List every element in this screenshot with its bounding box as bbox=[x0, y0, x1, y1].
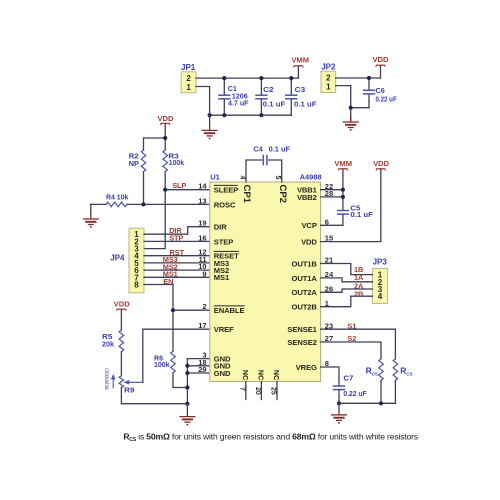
pin VDD 15 bbox=[301, 234, 333, 247]
capacitor C3 bbox=[285, 78, 317, 115]
capacitor C2 bbox=[255, 78, 286, 115]
pin VCP 6 bbox=[301, 217, 329, 230]
wire VREG to C7 bbox=[321, 367, 339, 386]
pin CP2 5 bbox=[274, 176, 288, 203]
power VMM mid bbox=[334, 159, 352, 211]
net label S2 bbox=[347, 334, 356, 343]
svg-text:14: 14 bbox=[198, 182, 207, 191]
svg-text:100k: 100k bbox=[169, 158, 185, 167]
svg-text:9: 9 bbox=[202, 269, 206, 278]
connector JP1 bbox=[181, 63, 196, 93]
wire JP1 pin1 to GND rail bbox=[196, 87, 210, 116]
wire GND bus vertical bbox=[186, 359, 188, 404]
svg-text:2B: 2B bbox=[354, 289, 363, 298]
svg-text:2: 2 bbox=[202, 302, 206, 311]
net label 2A bbox=[354, 282, 364, 291]
svg-text:OUT2B: OUT2B bbox=[292, 303, 318, 312]
net label EN bbox=[163, 277, 173, 286]
wire GND pin3 bbox=[187, 358, 209, 360]
pin NC 25 bbox=[270, 370, 282, 400]
junction dots GND bus bbox=[185, 364, 189, 406]
pin GND 18 bbox=[198, 358, 231, 371]
wire VBB1 bbox=[321, 189, 343, 191]
svg-text:25: 25 bbox=[270, 387, 277, 395]
net label MS2 bbox=[163, 262, 178, 271]
pin CP1 4 bbox=[238, 176, 252, 204]
svg-text:NP: NP bbox=[129, 159, 139, 168]
svg-text:VDD: VDD bbox=[373, 159, 390, 168]
svg-text:MS1: MS1 bbox=[214, 273, 230, 282]
resistor RCS right bbox=[393, 359, 412, 404]
pin OUT1B 21 bbox=[292, 256, 334, 269]
capacitor C4 bbox=[246, 144, 291, 182]
wire STP JP4 pin2 to STEP pin bbox=[144, 240, 210, 242]
net label RST bbox=[170, 248, 185, 257]
svg-text:4.7 uF: 4.7 uF bbox=[228, 99, 249, 108]
connector JP2 bbox=[321, 62, 336, 92]
svg-text:VREF: VREF bbox=[214, 325, 234, 334]
svg-text:VDD: VDD bbox=[372, 55, 389, 64]
wire MS1 bbox=[144, 276, 210, 278]
svg-text:NC: NC bbox=[257, 370, 266, 380]
svg-text:19: 19 bbox=[198, 219, 206, 228]
svg-text:STEP: STEP bbox=[214, 237, 233, 246]
svg-text:VBB2: VBB2 bbox=[297, 193, 317, 202]
wire sense ground rail bbox=[339, 402, 395, 404]
power VDD above R5 bbox=[114, 299, 131, 330]
capacitor C5 bbox=[321, 203, 374, 225]
svg-text:GND: GND bbox=[214, 369, 231, 378]
svg-text:0.1 uF: 0.1 uF bbox=[350, 210, 373, 219]
svg-text:VDD: VDD bbox=[114, 299, 131, 308]
pin SENSE2 27 bbox=[287, 334, 333, 347]
svg-text:U1: U1 bbox=[210, 172, 220, 181]
svg-text:SENSE1: SENSE1 bbox=[287, 325, 317, 334]
net label 1B bbox=[354, 265, 363, 274]
svg-text:29: 29 bbox=[198, 365, 206, 374]
wire JP2 pin1 to ground bbox=[336, 86, 351, 121]
power VDD mid bbox=[321, 159, 390, 242]
pin OUT2A 26 bbox=[292, 284, 334, 297]
wire C6 bottom to JP2 pin1 net bbox=[351, 107, 369, 109]
svg-text:JP1: JP1 bbox=[181, 63, 196, 72]
svg-text:RCS is 50mΩ for units with gre: RCS is 50mΩ for units with green resisto… bbox=[123, 431, 418, 443]
svg-text:JP4: JP4 bbox=[110, 254, 125, 263]
svg-text:VCP: VCP bbox=[301, 221, 316, 230]
svg-text:0.1 uF: 0.1 uF bbox=[263, 99, 286, 108]
svg-text:OUT1A: OUT1A bbox=[292, 274, 318, 283]
junction dots sense rail bbox=[337, 401, 383, 405]
wire MS2 bbox=[144, 269, 210, 271]
pin OUT2B 1 bbox=[292, 299, 329, 312]
connector JP4 bbox=[110, 228, 144, 293]
potentiometer R9 bbox=[119, 376, 143, 395]
svg-text:ENABLE: ENABLE bbox=[214, 306, 245, 315]
ground left of R4 bbox=[83, 204, 99, 228]
svg-text:4: 4 bbox=[378, 292, 383, 301]
svg-text:VDD: VDD bbox=[157, 114, 174, 123]
wire OUT1B to JP3 pin1 bbox=[321, 264, 373, 275]
svg-text:NC: NC bbox=[241, 370, 250, 380]
svg-text:CP1: CP1 bbox=[241, 185, 252, 204]
svg-text:20k: 20k bbox=[102, 340, 115, 349]
pin MS1 9 bbox=[202, 269, 230, 282]
note RCS values bbox=[123, 431, 418, 443]
power VMM top bbox=[291, 56, 309, 79]
wire OUT2A to JP3 pin3 bbox=[321, 289, 373, 292]
resistor R2 bbox=[129, 150, 146, 204]
svg-text:VREG: VREG bbox=[296, 363, 317, 372]
resistor R5 bbox=[102, 330, 124, 376]
net label S1 bbox=[347, 322, 356, 331]
pin MS3 11 bbox=[199, 255, 229, 268]
svg-text:SENSE2: SENSE2 bbox=[287, 338, 316, 347]
net label DIR bbox=[169, 226, 182, 235]
pin NC 20 bbox=[254, 370, 266, 400]
svg-text:OUT1B: OUT1B bbox=[292, 259, 318, 268]
wire SENSE2 S2 bbox=[321, 342, 381, 359]
svg-text:JP3: JP3 bbox=[373, 258, 388, 267]
svg-text:CS: CS bbox=[406, 372, 412, 377]
svg-text:0.22 uF: 0.22 uF bbox=[343, 389, 367, 398]
pin DIR 19 bbox=[198, 219, 227, 232]
wire VMM top rail bbox=[196, 77, 298, 79]
wire VBB2 bbox=[321, 196, 343, 198]
op-amp U1 A4988 IC body bbox=[210, 172, 322, 381]
wire EN JP4 pin8 down to ENABLE bbox=[144, 285, 173, 352]
resistor R3 bbox=[163, 138, 185, 190]
svg-text:SLEEP: SLEEP bbox=[214, 186, 238, 195]
net label MS3 bbox=[163, 255, 178, 264]
svg-text:17: 17 bbox=[198, 321, 206, 330]
wire SENSE1 S1 bbox=[321, 329, 396, 359]
junction dots VBB bbox=[341, 188, 345, 199]
net label STP bbox=[169, 234, 183, 243]
svg-text:C2: C2 bbox=[263, 85, 274, 94]
wire SLP down to JP4 pin3 bbox=[144, 190, 165, 249]
wire GND pin18 bbox=[187, 365, 209, 367]
power VDD top right bbox=[372, 55, 389, 78]
trimmer direction arrow clockwise bbox=[103, 368, 116, 390]
wire VDD branch to R2 bbox=[144, 138, 166, 150]
svg-text:CS: CS bbox=[372, 372, 378, 377]
svg-text:7: 7 bbox=[238, 387, 245, 391]
pin GND 3 bbox=[202, 351, 231, 364]
ground bottom left bbox=[179, 404, 195, 426]
junction dot EN bbox=[171, 308, 175, 312]
pin VBB2 28 bbox=[297, 189, 333, 202]
svg-text:0.1 uF: 0.1 uF bbox=[294, 99, 317, 108]
pin VBB1 22 bbox=[297, 182, 333, 195]
svg-text:A4988: A4988 bbox=[300, 173, 322, 182]
wire RST JP4 pin4 to RESET pin bbox=[144, 255, 210, 257]
svg-text:SLP: SLP bbox=[172, 181, 186, 190]
svg-text:13: 13 bbox=[198, 196, 206, 205]
svg-text:C7: C7 bbox=[343, 374, 353, 383]
svg-text:VDD: VDD bbox=[301, 238, 317, 247]
capacitor C6 bbox=[363, 78, 397, 108]
svg-text:8: 8 bbox=[134, 281, 139, 290]
wire GND pin29 bbox=[187, 372, 209, 374]
ground bottom right bbox=[331, 403, 347, 424]
pin GND 29 bbox=[198, 365, 231, 378]
junction dots top rails bbox=[208, 76, 294, 117]
svg-text:0.1 uF: 0.1 uF bbox=[269, 144, 291, 153]
wire MS3 bbox=[144, 262, 210, 264]
svg-text:2: 2 bbox=[186, 74, 191, 83]
wire ENABLE pin branch bbox=[173, 309, 210, 311]
net label SLP bbox=[172, 181, 186, 190]
pin MS2 10 bbox=[198, 262, 229, 275]
wire DIR JP4 pin1 to DIR pin bbox=[144, 227, 210, 235]
resistor R4 bbox=[91, 192, 210, 206]
wire OUT2B to JP3 pin4 bbox=[321, 296, 373, 307]
junction dots JP2 section bbox=[349, 76, 372, 110]
net label 1A bbox=[354, 273, 364, 282]
ground under JP1 bbox=[202, 115, 218, 140]
svg-text:4: 4 bbox=[238, 176, 245, 180]
svg-text:1: 1 bbox=[326, 82, 331, 91]
svg-text:OUT2A: OUT2A bbox=[292, 288, 318, 297]
wire R9 bottom to ground rail bbox=[121, 388, 187, 404]
junction dots R2 R3 bbox=[141, 136, 167, 207]
svg-text:VMM: VMM bbox=[334, 159, 352, 168]
pin VREF 17 bbox=[198, 321, 234, 334]
pin NC 7 bbox=[238, 370, 250, 400]
pin STEP 16 bbox=[198, 233, 233, 246]
wire SLP to SLEEP pin bbox=[165, 189, 210, 191]
connector JP3 bbox=[372, 258, 387, 304]
svg-text:2: 2 bbox=[326, 74, 331, 83]
svg-text:NC: NC bbox=[272, 370, 281, 380]
ground under JP2 bbox=[343, 117, 359, 131]
pin ROSC 13 bbox=[198, 196, 236, 209]
svg-text:R4 10k: R4 10k bbox=[106, 192, 129, 201]
svg-text:VMM: VMM bbox=[291, 56, 309, 65]
pin VREG 8 bbox=[296, 359, 329, 372]
pin SLEEP 14 bbox=[198, 182, 238, 195]
svg-text:5: 5 bbox=[274, 176, 281, 180]
svg-text:CP2: CP2 bbox=[277, 185, 288, 203]
capacitor C1 bbox=[218, 78, 249, 115]
net label 2B bbox=[354, 289, 363, 298]
svg-text:ROSC: ROSC bbox=[214, 200, 236, 209]
resistor R6 bbox=[154, 351, 187, 387]
net label MS1 bbox=[163, 270, 178, 279]
pin OUT1A 24 bbox=[292, 270, 334, 283]
pin RESET 12 bbox=[198, 248, 239, 261]
svg-text:DIR: DIR bbox=[214, 223, 227, 232]
wire GND rail top section bbox=[210, 114, 292, 116]
resistor RCS left bbox=[366, 359, 384, 404]
svg-text:1: 1 bbox=[186, 83, 191, 92]
wire OUT1A to JP3 pin2 bbox=[321, 278, 373, 282]
wire VREF to R9 wiper bbox=[143, 329, 210, 382]
svg-text:C4: C4 bbox=[253, 144, 263, 153]
svg-text:100k: 100k bbox=[154, 360, 170, 369]
wire JP2 pin2 to VDD bbox=[336, 77, 381, 79]
power VDD above R3 bbox=[157, 114, 174, 138]
svg-text:0.22 uF: 0.22 uF bbox=[376, 94, 398, 103]
capacitor C7 bbox=[333, 374, 367, 404]
pin ENABLE 2 bbox=[202, 302, 244, 315]
svg-text:16: 16 bbox=[198, 233, 206, 242]
svg-text:clockwise: clockwise bbox=[103, 368, 109, 390]
svg-text:20: 20 bbox=[254, 387, 261, 395]
pin SENSE1 23 bbox=[287, 321, 333, 334]
svg-text:R9: R9 bbox=[124, 385, 134, 394]
svg-text:C3: C3 bbox=[295, 85, 306, 94]
svg-text:JP2: JP2 bbox=[321, 62, 336, 71]
